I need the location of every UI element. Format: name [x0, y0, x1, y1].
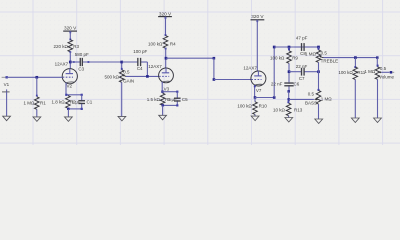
- potentiometer Volume 1M: [364, 58, 394, 80]
- resistor R10 100k (follower cathode load): [237, 98, 267, 117]
- svg-text:V1: V1: [4, 82, 10, 87]
- ground (under R1): [33, 117, 41, 122]
- svg-text:R13: R13: [294, 107, 303, 112]
- node cathode rail corner stage 2: [161, 91, 163, 93]
- node C7 left junction: [288, 70, 291, 73]
- capacitor C4 100pF (bright cap): [122, 49, 148, 77]
- svg-text:47 pF: 47 pF: [296, 36, 308, 41]
- ground (under R13): [285, 118, 293, 123]
- ground (under R11): [351, 118, 359, 123]
- svg-text:320 V: 320 V: [251, 14, 264, 19]
- node below C6: [287, 90, 290, 93]
- svg-text:C3: C3: [78, 66, 84, 71]
- resistor R13 10k (mid): [273, 101, 303, 117]
- resistor R5 1.5k (cathode stage 2): [147, 93, 172, 105]
- wire plate V3 to follower grid: [166, 57, 251, 81]
- ground (under follower R10): [251, 116, 259, 121]
- tube V2 12AX7 (stage 1 triode): [55, 62, 78, 89]
- ground (under Volume pot): [374, 118, 382, 123]
- potentiometer TREBLE 1M: [305, 47, 338, 63]
- wire C6 to R13: [288, 91, 290, 103]
- svg-text:R10: R10: [259, 104, 268, 109]
- svg-text:100 kΩ: 100 kΩ: [237, 104, 252, 109]
- ground (under GAIN pot): [118, 116, 126, 121]
- svg-text:1.8 kΩ: 1.8 kΩ: [51, 100, 65, 105]
- svg-text:12AX7: 12AX7: [243, 66, 257, 71]
- capacitor C8 47pF (treble cap): [294, 36, 318, 56]
- resistor R1 1M (grid leak): [24, 77, 47, 117]
- power supply node 320V (stage 2): [158, 11, 172, 35]
- svg-text:1 µF: 1 µF: [168, 97, 177, 102]
- svg-text:0.5: 0.5: [380, 66, 387, 71]
- wire cathode V7 down: [254, 85, 256, 97]
- capacitor C1 1uF (cathode bypass): [72, 95, 93, 109]
- wire treble wiper to volume pot: [324, 57, 378, 59]
- resistor R11 100k: [338, 58, 365, 118]
- capacitor C3 580pF (coupling): [70, 52, 121, 71]
- wire C3 to gain pot: [121, 62, 123, 70]
- svg-text:0.5: 0.5: [308, 92, 315, 97]
- ground (under BASS pot): [315, 119, 323, 124]
- node R11 top junction: [354, 56, 357, 59]
- capacitor C6 22nF (series in column): [271, 82, 300, 92]
- svg-text:12AX7: 12AX7: [148, 64, 162, 69]
- svg-text:V3: V3: [164, 86, 170, 91]
- node C7 right junction: [317, 70, 320, 73]
- svg-text:C6: C6: [294, 82, 300, 87]
- wire cathode V3 down: [161, 82, 163, 92]
- wire cathode top rail: [65, 94, 83, 96]
- potentiometer GAIN 500k: [105, 68, 135, 84]
- svg-text:C1: C1: [87, 100, 93, 105]
- tube V3 12AX7 (stage 2 triode): [148, 64, 173, 92]
- resistor R4 100k (plate load): [148, 34, 176, 49]
- resistor R2 1.8k (cathode): [51, 96, 76, 109]
- ground (under V2 cathode): [65, 117, 73, 122]
- capacitor C5 1uF (cathode bypass stage 2): [168, 92, 188, 106]
- wire cathode top rail stage 2: [162, 91, 178, 93]
- power supply node 320V (stage 1): [63, 25, 77, 39]
- wire cathode bottom rail stage 2: [162, 104, 179, 115]
- svg-text:100 kΩ: 100 kΩ: [148, 41, 163, 46]
- potentiometer BASS 1M: [305, 90, 332, 105]
- svg-text:C4: C4: [137, 66, 143, 71]
- wire input to grid of V2: [7, 76, 63, 78]
- wire R4 to plate node: [165, 48, 167, 68]
- power supply node 320V (stage 3): [251, 14, 265, 71]
- wire bass pot to ground: [318, 104, 320, 119]
- svg-text:R9: R9: [292, 55, 298, 60]
- svg-text:220 kΩ: 220 kΩ: [54, 44, 69, 49]
- svg-text:320 V: 320 V: [64, 25, 77, 30]
- node volume corner: [376, 56, 379, 59]
- capacitor C7 22nF: [289, 64, 319, 81]
- svg-text:Volume: Volume: [379, 74, 395, 79]
- node plate stage 2: [165, 57, 168, 60]
- wire cathode follower output: [255, 96, 276, 99]
- wire cathode V2 down: [65, 83, 67, 95]
- ground (under V3 cathode): [159, 115, 167, 120]
- svg-text:R4: R4: [170, 41, 176, 46]
- wire tone stack riser: [273, 47, 275, 98]
- node riser top corner: [273, 46, 276, 49]
- node treble top corner: [317, 46, 320, 49]
- svg-text:R3: R3: [73, 44, 79, 49]
- svg-text:500 kΩ: 500 kΩ: [105, 75, 120, 80]
- tube V7 12AX7 (cathode follower): [243, 66, 266, 93]
- wire bass wiper to column: [289, 98, 314, 100]
- wire R3 to plate node: [69, 52, 71, 69]
- svg-text:0.5: 0.5: [321, 50, 328, 55]
- node plate stage 1: [69, 61, 72, 64]
- svg-text:580 pF: 580 pF: [75, 52, 89, 57]
- svg-text:100 kΩ: 100 kΩ: [338, 70, 353, 75]
- svg-text:0.5: 0.5: [123, 69, 130, 74]
- svg-text:V2: V2: [67, 84, 73, 89]
- svg-text:V7: V7: [256, 88, 262, 93]
- svg-text:1 MΩ: 1 MΩ: [305, 51, 317, 56]
- svg-text:1 MΩ: 1 MΩ: [24, 100, 36, 105]
- svg-text:12AX7: 12AX7: [55, 62, 69, 67]
- svg-text:1 µF: 1 µF: [72, 100, 81, 105]
- svg-text:1 MΩ: 1 MΩ: [364, 69, 376, 74]
- wire gain wiper to grid V3: [126, 75, 159, 77]
- svg-text:C7: C7: [299, 76, 305, 81]
- svg-text:100 kΩ: 100 kΩ: [270, 55, 285, 60]
- ground (under V1): [3, 116, 11, 121]
- svg-text:R1: R1: [40, 100, 46, 105]
- resistor R9 100k (slope): [270, 47, 298, 63]
- node input R1 junction: [35, 76, 38, 79]
- svg-text:320 V: 320 V: [159, 11, 172, 16]
- svg-text:10 kΩ: 10 kΩ: [273, 107, 286, 112]
- node gain pot top corner: [120, 61, 123, 64]
- wire tone stack top rail: [274, 46, 318, 48]
- resistor R3 220k (plate load): [54, 39, 80, 54]
- svg-text:22 nF: 22 nF: [296, 64, 308, 69]
- svg-text:1 MΩ: 1 MΩ: [321, 96, 333, 101]
- node bass wiper junction: [287, 98, 290, 101]
- svg-text:100 pF: 100 pF: [133, 49, 147, 54]
- wire cathode bottom rail: [67, 108, 83, 117]
- svg-text:1.5 kΩ: 1.5 kΩ: [147, 97, 161, 102]
- svg-text:TREBLE: TREBLE: [321, 58, 339, 63]
- node cathode follower output: [254, 96, 257, 99]
- wire gain pot to ground: [121, 82, 123, 116]
- svg-text:GAIN: GAIN: [123, 78, 134, 83]
- wire volume wiper output: [381, 71, 394, 74]
- node R9 top junction: [288, 46, 291, 49]
- node C4 to grid junction: [146, 75, 149, 78]
- wire R9 bottom column: [288, 63, 290, 82]
- svg-text:C5: C5: [182, 97, 188, 102]
- svg-text:BASS: BASS: [305, 100, 317, 105]
- voltage source V1 (input): [2, 76, 10, 116]
- wire volume pot to ground: [377, 79, 379, 118]
- svg-text:22 nF: 22 nF: [271, 82, 283, 87]
- wire treble bottom to bass top: [318, 62, 320, 91]
